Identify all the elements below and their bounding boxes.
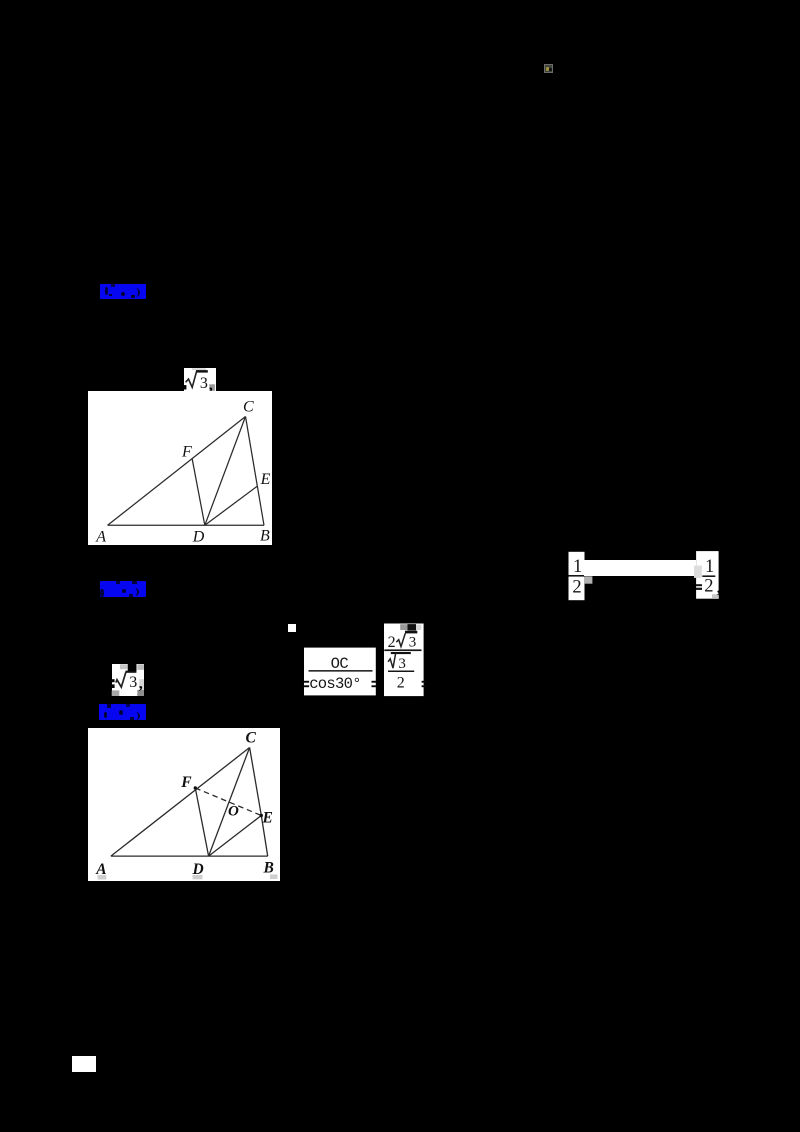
svg-text:3: 3 <box>409 634 417 650</box>
svg-text:O: O <box>228 804 239 820</box>
figure 2: triangle ABC with cevians and dashed FE <box>88 728 280 881</box>
radical check <box>116 672 126 687</box>
grey patch + comma <box>209 384 215 391</box>
wire segment DC <box>205 417 246 526</box>
formula image: sqrt(3) comma (second) <box>110 659 148 699</box>
black notch at left edge <box>184 385 186 389</box>
formula image: sqrt(3) comma (above figure 1) <box>184 368 216 392</box>
broken image placeholder icon top right <box>544 64 553 73</box>
svg-text:2: 2 <box>572 577 581 597</box>
wire side CB <box>246 417 265 526</box>
denominator sqrt 3 <box>391 652 411 654</box>
white strip between fractions <box>584 560 696 577</box>
svg-text:2: 2 <box>704 577 713 597</box>
main fraction bar <box>384 649 421 651</box>
wire segment DE <box>205 486 258 525</box>
figure 1: triangle ABC with cevians <box>88 391 272 545</box>
svg-text:3: 3 <box>398 656 406 672</box>
wire side CE <box>250 748 262 816</box>
wire side AB <box>108 524 264 526</box>
wire segment EB <box>261 816 267 857</box>
svg-text:C: C <box>243 398 254 415</box>
radical bar <box>126 671 137 673</box>
svg-text:3: 3 <box>200 375 208 392</box>
svg-text:F: F <box>181 443 192 460</box>
white rectangle bottom left <box>72 1056 96 1072</box>
svg-text:OC: OC <box>331 655 349 673</box>
blue label 1 <box>100 284 146 299</box>
svg-text:1: 1 <box>573 557 582 577</box>
black caret notch <box>128 662 137 671</box>
svg-text:F: F <box>180 774 192 791</box>
svg-text:,: , <box>717 580 721 597</box>
black equals remnant at left <box>111 679 114 682</box>
fraction 1/2 (left) <box>568 551 586 600</box>
svg-text:2: 2 <box>388 634 396 651</box>
wire side AC <box>111 748 250 857</box>
svg-text:,: , <box>139 676 143 693</box>
radical check <box>186 371 197 387</box>
fraction 1/2 (right) with equals and comma <box>694 551 722 601</box>
svg-text:E: E <box>262 810 273 827</box>
small white square <box>288 624 296 632</box>
equals remnant right <box>422 681 426 683</box>
svg-text:B: B <box>263 860 274 877</box>
svg-text:1: 1 <box>705 557 714 577</box>
svg-text:D: D <box>192 528 205 545</box>
svg-text:2: 2 <box>397 674 405 691</box>
jpeg artifact marks under labels <box>98 875 107 880</box>
wire segment FD <box>195 788 208 856</box>
wire segment FD <box>192 459 205 525</box>
blue label 2 <box>100 581 146 597</box>
wire side AC <box>108 417 246 526</box>
svg-text:3: 3 <box>129 674 137 691</box>
node E dot <box>260 814 263 817</box>
wire dashed segment FE <box>195 788 261 816</box>
wire segment DC <box>209 748 250 857</box>
wire segment DE <box>209 816 262 857</box>
blue label 3 <box>99 704 146 720</box>
wire side AB <box>111 855 268 857</box>
svg-text:cos30°: cos30° <box>309 675 361 693</box>
svg-text:C: C <box>246 730 257 747</box>
svg-text:A: A <box>95 528 106 545</box>
node F dot <box>194 786 197 789</box>
radical bar <box>196 370 208 373</box>
formula image: OC over cos30deg <box>300 645 380 697</box>
svg-text:B: B <box>260 528 270 545</box>
formula image: 2sqrt3 over (sqrt3 over 2) <box>382 620 428 700</box>
svg-text:E: E <box>260 471 271 488</box>
